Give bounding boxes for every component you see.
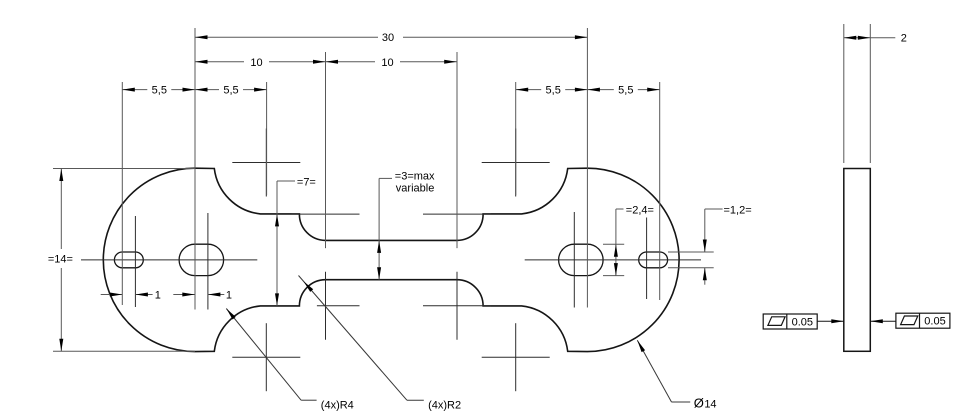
dimension =1,2= extension lines [668,252,714,268]
extension line x=660 (5.5 rightmost) [659,82,661,300]
feature control frame left leader [817,319,844,323]
dimension 10 left line + arrows [195,60,326,64]
svg-text:=14=: =14= [48,253,73,265]
center mark R2 bottom-left [317,305,360,307]
feature control frame right leader [870,319,896,323]
side view extension lines [844,24,871,163]
svg-text:=2,4=: =2,4= [626,205,654,217]
svg-text:5,5: 5,5 [546,85,561,97]
svg-text:1: 1 [226,289,232,301]
slot hole left large (2.4 wide) [179,244,224,275]
extension line x=325.5 (10 mid) [325,52,327,248]
svg-text:2: 2 [901,33,907,45]
svg-text:10: 10 [250,57,262,69]
dimension 5,5 second [195,89,219,91]
svg-text:30: 30 [382,32,394,44]
center mark R2 top-right [423,213,491,215]
dimension 5,5 fourth [587,89,613,91]
dimension =14= extension lines [53,169,195,352]
center mark R2 bottom-right [423,305,491,307]
feature control frame left (flatness 0.05) [763,314,817,329]
dimension 10 right line + arrows [326,60,457,64]
svg-text:variable: variable [396,183,435,195]
dimension =7= line + arrows [275,181,295,306]
vertical centerline slot right-large left arc [573,212,575,308]
svg-text:(4x)R4: (4x)R4 [321,400,354,412]
leader (4x)R2 [299,276,424,401]
svg-text:(4x)R2: (4x)R2 [428,400,461,412]
dimension 30 line + arrows [195,35,587,39]
dimension 5,5 third [516,89,542,91]
svg-text:Ø14: Ø14 [694,396,717,411]
svg-text:5,5: 5,5 [152,85,167,97]
svg-text:1: 1 [155,289,161,301]
center mark R4 bottom-left [232,356,300,358]
dimension 5,5 first [122,89,147,91]
extension line x=457 (10 right) [456,52,458,248]
center mark R4 top-right [482,162,550,164]
dimension =3= line + arrows [377,178,392,279]
extension line x=266.9 (5.5 third) [266,82,268,195]
feature control frame right (flatness 0.05) [896,313,950,328]
center mark R2 top-left [292,213,360,215]
svg-text:=1,2=: =1,2= [724,205,752,217]
side view rectangle (thickness 2 plate) [844,169,871,352]
slot hole right large (2.4 wide) [559,244,604,275]
leader Ø14 [637,340,690,402]
svg-text:5,5: 5,5 [618,85,633,97]
svg-text:5,5: 5,5 [223,85,238,97]
svg-text:=3=max: =3=max [395,171,435,183]
leader (4x)R4 [226,309,316,401]
part outline (dog-bone plate, front view) [103,168,679,351]
vertical centerline slot left-large right arc [207,213,209,310]
vertical centerline slot left-small right arc [134,216,136,307]
extension line x=516 (5.5 right pair) [515,82,517,195]
svg-text:=7=: =7= [297,176,316,188]
dimension =2,4= line + arrows [614,209,624,276]
center mark R4 top-left [232,162,300,164]
svg-text:0.05: 0.05 [924,316,945,328]
dimension 2 line + arrows [844,36,896,40]
extension line x=122.3 (5.5 left) [121,82,123,305]
extension line x=587 (30 right) [586,28,588,308]
slot hole right small (1.2 wide) [639,252,668,268]
dimension 1 right (large slot) [173,293,224,297]
extension line x=195 (30/10/5.5 datum) [194,28,196,310]
dimension 1 left (small slot) [101,293,153,297]
horizontal centerline right end [525,259,701,261]
vertical centerline slot right-small left arc [646,218,648,300]
dimension =1,2= line + arrows [703,209,723,285]
dimension =2,4= extension lines [603,244,624,275]
dimension =14= line + arrows [59,169,63,352]
slot hole left small (1.2 wide) [114,252,143,268]
svg-text:0.05: 0.05 [792,317,813,329]
horizontal centerline left end [81,259,257,261]
svg-text:10: 10 [381,57,393,69]
center mark R4 bottom-right [482,356,550,358]
